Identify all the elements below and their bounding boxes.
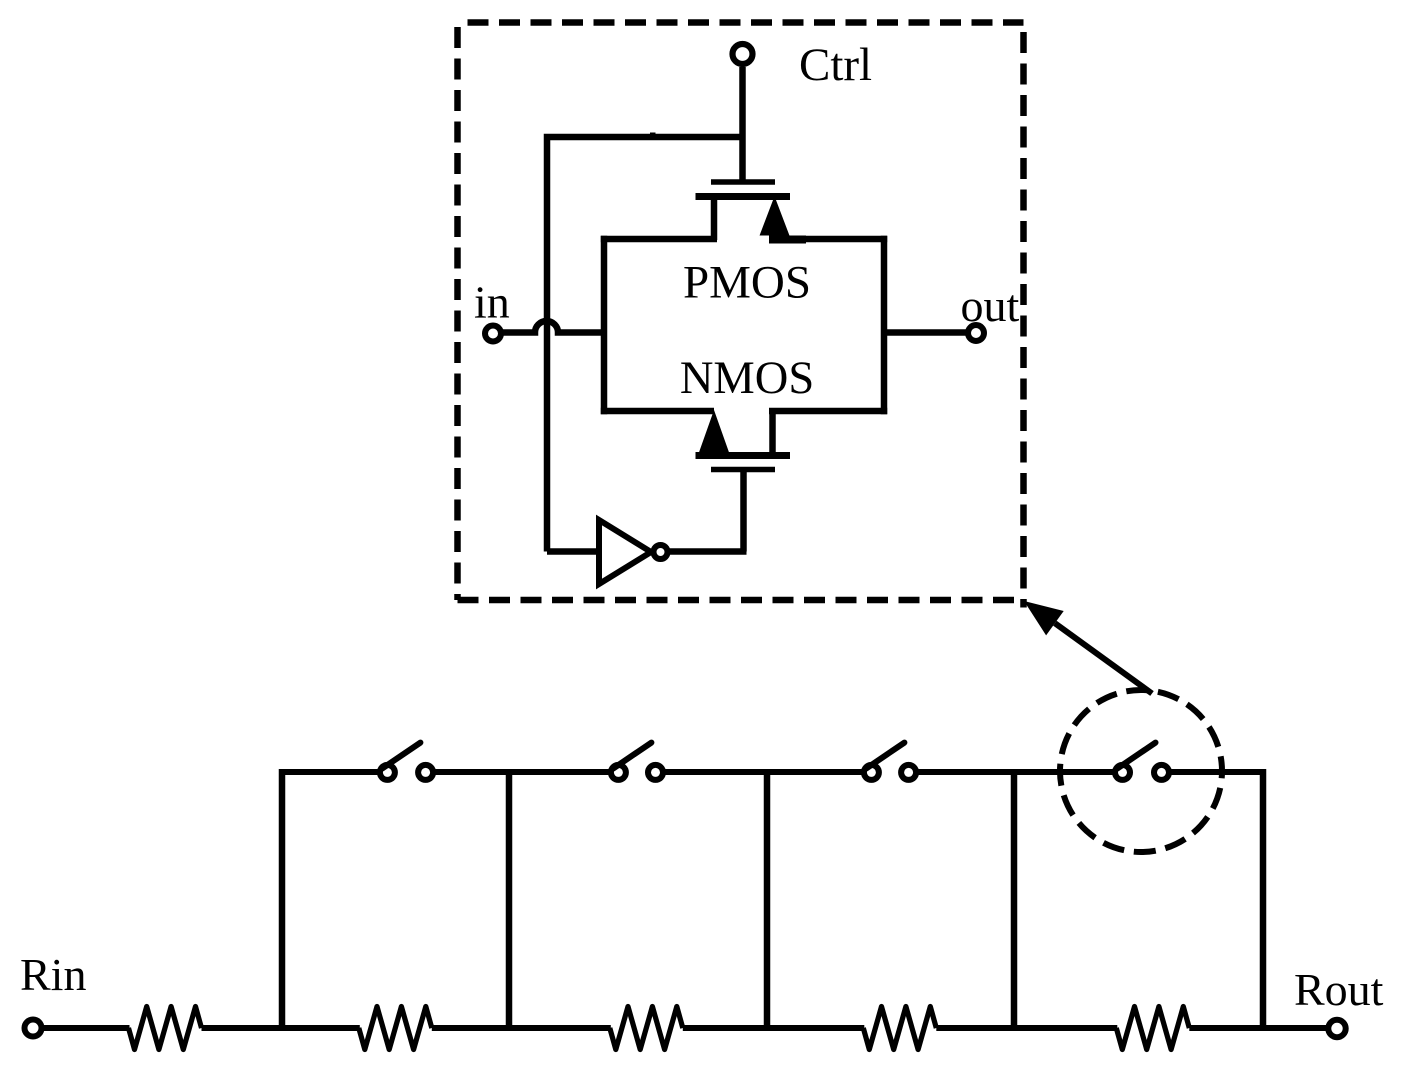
wire: bottom rail R5 to Rout [1189, 1025, 1328, 1031]
wire: body box to out terminal [884, 329, 968, 336]
wire: inverter output to NMOS gate stub [668, 548, 747, 555]
switch S4 (circled) [1115, 743, 1169, 780]
transistor NMOS gate bar [711, 467, 775, 473]
resistor R3 [610, 1007, 683, 1050]
transistor PMOS bulk arrow (points up) [761, 199, 788, 235]
switch S1 [380, 743, 433, 780]
dashed box: transmission gate detail view [458, 23, 1024, 608]
right edge [881, 236, 888, 414]
transistor NMOS right source/drain lead [769, 411, 776, 456]
arrow callout from circled switch to dashed box corner [1024, 601, 1152, 694]
resistor R1 [129, 1007, 202, 1050]
wire: riser 2 [506, 769, 513, 1028]
wire: stub under PMOS arrow [769, 236, 806, 244]
transistor PMOS channel bar [696, 193, 791, 200]
wire: bottom rail R3 to R4 [683, 1025, 865, 1031]
transistor PMOS (top) : gate bar [711, 179, 775, 185]
svg-text:PMOS: PMOS [683, 257, 811, 309]
transistor NMOS channel bar [696, 452, 791, 459]
Ctrl terminal [733, 44, 753, 64]
wire: feedback from Ctrl line to inverter input [547, 137, 743, 552]
wire: top rail segment riser1 to S1 [282, 769, 378, 775]
transistor NMOS (bottom) : bulk arrow (points up to box) [700, 413, 728, 453]
wire: NMOS gate down to inverter output [740, 470, 747, 552]
wire: top rail segment S3 to riser4 to S4 [919, 769, 1113, 775]
resistor R4 [863, 1007, 936, 1050]
transistor PMOS left source/drain lead [711, 197, 718, 241]
wire: bottom rail R4 to R5 [936, 1025, 1117, 1031]
wire: riser 1 [279, 769, 286, 1028]
dashed circle highlighting switch S4 [1045, 675, 1237, 867]
inverter U1 triangle [599, 520, 651, 584]
inverter output bubble [654, 545, 668, 559]
wire: top rail segment S2 to riser3 to S3 [666, 769, 862, 775]
switch S2 [611, 743, 663, 780]
wire: inverter input [547, 548, 599, 555]
wire: Ctrl terminal down to PMOS gate [739, 67, 746, 182]
wire: top rail segment S1 to riser2 to S2 [436, 769, 609, 775]
left edge [601, 236, 608, 414]
svg-text:NMOS: NMOS [680, 353, 814, 404]
resistor R5 [1116, 1007, 1189, 1050]
wire: riser 5 [1260, 769, 1267, 1028]
wire: bottom rail segment Rin to R1 [42, 1025, 130, 1031]
top edge right segment [769, 236, 887, 243]
node in terminal [485, 326, 501, 342]
svg-text:Ctrl: Ctrl [799, 39, 872, 91]
wire: bottom rail R2 to R3 [432, 1025, 611, 1031]
wire: top rail segment S4 to riser5 [1172, 769, 1264, 775]
wire: bottom rail R1 to R2 [202, 1025, 360, 1031]
wire artifact tick on feedback wire [650, 133, 656, 137]
svg-text:out: out [961, 280, 1020, 331]
node Rout terminal [1328, 1020, 1345, 1037]
bottom edge right segment [769, 408, 887, 415]
svg-text:Rin: Rin [20, 949, 86, 1000]
node out terminal [968, 325, 984, 341]
wire: riser 4 [1011, 769, 1018, 1028]
node Rin terminal [25, 1020, 42, 1037]
switch S3 [864, 743, 916, 780]
body box (parallel PMOS/NMOS block) [601, 236, 887, 414]
svg-text:in: in [474, 277, 510, 328]
wire: riser 3 [764, 769, 771, 1028]
bottom edge left segment [601, 408, 714, 415]
top edge left segment [601, 236, 717, 243]
resistor R2 [359, 1007, 432, 1050]
svg-text:Rout: Rout [1294, 964, 1384, 1015]
wire: in terminal to body box with hop over feedback wire [501, 321, 604, 333]
